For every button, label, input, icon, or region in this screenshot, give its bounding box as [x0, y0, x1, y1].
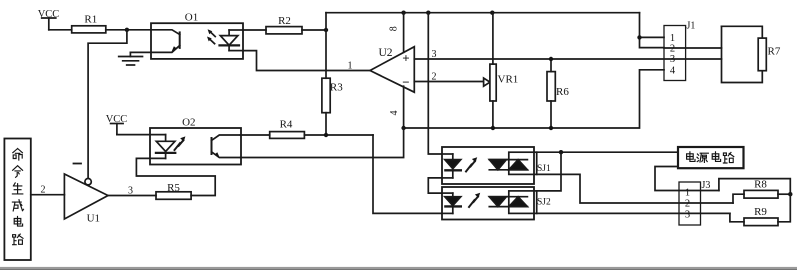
wire R4 node down to SJ2 cathode [373, 135, 442, 213]
svg-text:U2: U2 [378, 47, 392, 59]
junction rail/SJ feed [426, 11, 430, 15]
svg-text:R9: R9 [754, 206, 767, 218]
bolt of SJ2 [469, 200, 475, 207]
wire U2 pin 2 (- input) to VR1 wiper [414, 81, 483, 83]
wire O1 to R2 [243, 29, 266, 31]
wire SJ1 top output to power block [537, 151, 678, 153]
wire O1 to op-amp output node 1 [243, 51, 370, 71]
svg-text:8: 8 [389, 26, 400, 31]
svg-text:R7: R7 [768, 46, 781, 58]
junction J1 feed [637, 35, 641, 39]
photodiode of O1 [220, 36, 238, 46]
phototransistor of O1 [179, 32, 181, 48]
junction rail/VR1 [490, 11, 494, 15]
wire SJ1 cathode to SJ2 anode [428, 178, 442, 193]
wire ground to O1 [130, 51, 151, 53]
svg-text:2: 2 [432, 72, 437, 83]
op-amp U2 [370, 47, 414, 92]
power supply block [678, 147, 744, 168]
wire R8 right [778, 193, 790, 195]
svg-text:U1: U1 [87, 213, 100, 225]
wire O2 emitter to lower rail [241, 128, 404, 158]
svg-text:3: 3 [432, 49, 437, 60]
wire R9 right to node [778, 194, 790, 222]
wire top rail to SJ1 anode [428, 13, 442, 154]
junction rail/pin8 [401, 11, 405, 15]
wire R4 to SJ2 node [304, 134, 373, 136]
svg-text:1: 1 [348, 61, 353, 72]
phototransistor of O2 [211, 138, 213, 154]
connector J1 [664, 26, 686, 81]
resistor R7 with loop [722, 26, 767, 82]
wire J3 pin 1 to R8/R9 right node [719, 179, 790, 195]
svg-text:SJ2: SJ2 [537, 198, 551, 208]
wire R3 bottom to R4 node [325, 113, 327, 136]
svg-text:SJ1: SJ1 [537, 164, 551, 174]
svg-text:R5: R5 [167, 182, 180, 194]
svg-text:O1: O1 [185, 12, 198, 24]
potentiometer VR1 [484, 13, 497, 128]
triac of SJ2 [509, 191, 537, 214]
svg-text:2: 2 [41, 185, 46, 196]
svg-text:4: 4 [670, 66, 676, 77]
svg-text:O2: O2 [182, 117, 195, 129]
wire J3 pin 3 to R9 [730, 213, 744, 221]
wire feedback vertical to R3 [325, 13, 327, 79]
junction node R1/O1/U1-enable [125, 28, 129, 32]
svg-text:R3: R3 [330, 82, 343, 94]
resistor R3 [322, 78, 330, 113]
resistor R5 [156, 192, 191, 200]
wire SJ2 top output up to junction [537, 152, 561, 191]
svg-text:R2: R2 [278, 15, 291, 27]
resistor R8 [744, 190, 778, 198]
svg-text:1: 1 [685, 187, 690, 198]
svg-text:2: 2 [685, 199, 690, 210]
svg-text:J1: J1 [687, 21, 696, 32]
triac of SJ1 [509, 152, 537, 174]
resistor R2 [266, 27, 302, 34]
svg-text:R8: R8 [754, 179, 767, 191]
wire VCC to O2 [117, 134, 150, 136]
svg-text:2: 2 [670, 43, 675, 54]
wire power block to J3 pin 1 [655, 167, 719, 191]
wire VCC to R1 [49, 29, 72, 31]
wire lower rail [404, 70, 664, 128]
LED of SJ2 [452, 193, 454, 197]
svg-text:R4: R4 [280, 119, 293, 131]
optocoupler O1 [151, 23, 243, 59]
svg-text:VCC: VCC [106, 114, 128, 125]
wire SJ1 bottom output to J3 pin 2 [537, 174, 733, 203]
svg-text:VR1: VR1 [498, 74, 519, 86]
junction R3/R4 node [324, 133, 328, 137]
wire U2 pin 8 [403, 13, 405, 53]
resistor R6 [547, 59, 555, 128]
resistor R4 [270, 132, 305, 139]
wire U1 output pin 3 to R5 [108, 195, 156, 197]
bolt of SJ1 [466, 165, 472, 172]
svg-text:J3: J3 [702, 180, 711, 191]
svg-text:R1: R1 [84, 14, 97, 26]
power symbol VCC (top left) [42, 18, 56, 30]
wire U2 pin 4 [403, 86, 405, 128]
solid state relay SJ2 [442, 187, 537, 220]
junction rail/VR1 bottom [491, 126, 495, 130]
enable overbar mark [74, 163, 82, 165]
light arrows of O1 [210, 32, 215, 37]
ground [119, 52, 143, 65]
wire O2 cathode to R5 [136, 158, 215, 195]
LED of O2 [150, 134, 166, 136]
bottom separator band [0, 267, 797, 269]
wire R2 to feedback node [302, 29, 326, 31]
wire junction to U1 enable bubble [88, 30, 127, 178]
wire SJ2 bottom output to J3 pin 3 [537, 212, 730, 214]
junction R6 top / pin3 line [549, 57, 553, 61]
junction node R2/R3 [324, 28, 328, 32]
wire U2 pin 3 (+ input) to J1 pin 3 [414, 58, 721, 60]
junction SJ outputs [559, 150, 563, 154]
solid state relay SJ1 [442, 147, 537, 184]
svg-text:3: 3 [670, 54, 675, 65]
svg-text:3: 3 [128, 186, 133, 197]
svg-text:4: 4 [389, 111, 400, 116]
resistor R9 [744, 218, 778, 226]
wire top rail to J1 pins 1,2 [640, 13, 665, 48]
connector J3 [679, 182, 701, 225]
power symbol VCC (near O2) [111, 124, 124, 135]
command generator block [4, 139, 30, 261]
light bolt of O2 [175, 143, 181, 150]
resistor R1 [72, 26, 106, 33]
wire block pin 2 to U1 [31, 194, 65, 196]
LED of SJ1 [452, 154, 454, 160]
svg-text:R6: R6 [556, 86, 569, 98]
wire O2 collector to R4 [241, 134, 270, 136]
svg-text:3: 3 [685, 209, 690, 220]
junction rail/R6 bottom [549, 126, 553, 130]
svg-text:VCC: VCC [38, 9, 60, 20]
optocoupler O2 [150, 128, 241, 165]
wire R1 to O1 [106, 29, 151, 31]
buffer U1 [64, 174, 108, 219]
wire top supply rail [326, 12, 640, 14]
junction R8/R9 node [788, 192, 792, 196]
junction rail/pin4 [401, 126, 405, 130]
wire J3 pin 2 to R8 [733, 194, 744, 203]
